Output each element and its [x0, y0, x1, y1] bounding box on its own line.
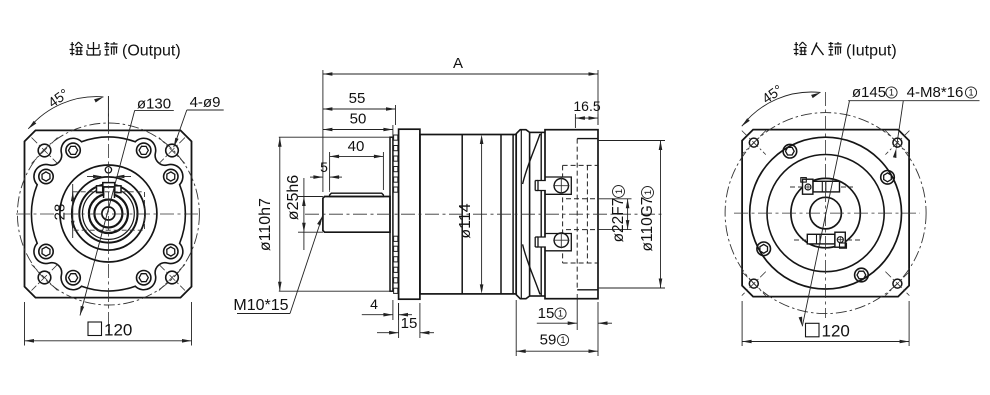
key width dimension arrows	[87, 176, 101, 178]
dimension 5	[310, 176, 323, 178]
svg-text:1: 1	[614, 189, 625, 194]
dimension 15-1	[576, 294, 578, 330]
8 hex socket screws	[164, 169, 178, 183]
centerlines right view	[734, 212, 920, 214]
dimension phi25h6	[298, 196, 323, 198]
flange bolt strip	[394, 135, 398, 140]
hidden input bore phi22	[566, 198, 598, 200]
dimension square 120 bottom left view	[88, 322, 102, 336]
svg-text:4: 4	[370, 296, 378, 312]
small hole at top of hub	[105, 167, 111, 173]
dimension phi110h7	[279, 136, 390, 138]
clamp screw lower with access slot	[538, 234, 571, 251]
svg-text:A: A	[453, 55, 463, 72]
clamp screw upper with access slot	[538, 177, 571, 194]
middle centerline	[305, 213, 662, 215]
svg-text:1: 1	[643, 190, 654, 195]
svg-text:5: 5	[320, 159, 328, 175]
bolt circle phi130 dash-dot	[17, 123, 199, 305]
clamp screw slot upper	[813, 181, 840, 192]
dimension 59-1	[515, 300, 517, 356]
hub concentric circles	[60, 165, 157, 262]
dimension phi110G7-1	[599, 140, 665, 142]
corner holes 4-phi9 with diagonal centerlines	[38, 144, 51, 157]
svg-text:55: 55	[349, 90, 366, 107]
dimension A	[322, 70, 324, 192]
svg-text:ø145: ø145	[852, 84, 886, 101]
dimension 28	[72, 184, 74, 238]
scalloped flange outline	[31, 137, 185, 291]
dashed key square 28	[73, 192, 145, 230]
dimension square 120 bottom right view	[806, 323, 820, 337]
4 assembly hex screws	[881, 171, 895, 185]
svg-text:15: 15	[401, 315, 418, 332]
output end view: square flange	[25, 130, 192, 297]
svg-text:1: 1	[558, 309, 563, 319]
svg-text:M10*15: M10*15	[233, 297, 288, 314]
svg-text:ø25h6: ø25h6	[285, 175, 302, 220]
svg-text:(Output): (Output)	[122, 43, 181, 60]
svg-text:ø110G7: ø110G7	[639, 197, 656, 252]
svg-text:59: 59	[540, 332, 557, 349]
svg-text:16.5: 16.5	[573, 98, 600, 114]
centerlines left view	[16, 213, 201, 215]
dimension 50	[392, 125, 394, 137]
svg-text:(Iutput): (Iutput)	[846, 43, 897, 60]
pilot ring phi110h7	[390, 137, 393, 291]
svg-text:4-M8*16: 4-M8*16	[907, 84, 964, 101]
leader phi145	[802, 101, 849, 327]
key clamp cluster at top	[97, 186, 103, 193]
svg-text:1: 1	[968, 88, 973, 98]
45 degree dimension arc	[28, 97, 103, 129]
svg-text:4-ø9: 4-ø9	[190, 94, 221, 111]
shaft key	[330, 193, 384, 196]
dimension 16.5	[574, 114, 576, 128]
register recess phi110G7	[577, 138, 598, 140]
dimension phi22F7-1	[599, 198, 632, 200]
dimension 55	[395, 105, 397, 125]
title output (CJK drawn)	[71, 44, 75, 46]
svg-text:ø22F7: ø22F7	[610, 198, 627, 243]
hidden clamp hub lines	[563, 164, 598, 166]
input end view: square flange	[742, 130, 909, 297]
bolt circle phi145 dash-dot	[725, 113, 926, 314]
45 degree arc right view	[742, 92, 821, 126]
dimension 4	[392, 300, 394, 320]
input bell silhouette	[530, 131, 545, 133]
main gearbox body phi114	[420, 135, 516, 294]
svg-text:50: 50	[350, 111, 367, 128]
svg-text:1: 1	[889, 88, 894, 98]
dimension 15	[398, 303, 400, 338]
svg-text:1: 1	[560, 335, 565, 345]
clamp collar circle	[791, 178, 860, 247]
clamp screw slot lower	[807, 234, 835, 244]
svg-text:40: 40	[348, 138, 365, 155]
svg-text:ø110h7: ø110h7	[257, 198, 274, 251]
svg-text:ø114: ø114	[457, 203, 474, 238]
bell opening circle	[767, 155, 884, 272]
register circle	[750, 137, 902, 289]
svg-text:120: 120	[822, 322, 850, 341]
title input (CJK drawn)	[795, 44, 799, 46]
keyway notch on shaft bore	[104, 188, 114, 199]
side view: output shaft	[323, 197, 390, 233]
dimension phi114	[481, 140, 483, 288]
step ring	[516, 130, 529, 299]
svg-text:120: 120	[104, 321, 132, 340]
svg-text:15: 15	[538, 305, 555, 322]
dimension 40	[329, 152, 331, 190]
svg-text:ø130: ø130	[137, 96, 171, 113]
corner tapped holes 4-M8	[749, 138, 758, 147]
output flange disc	[399, 129, 420, 299]
input bore phi22	[810, 197, 842, 229]
svg-text:28: 28	[52, 204, 69, 221]
input flange disc	[545, 130, 598, 299]
leader 4-M8	[896, 101, 903, 149]
